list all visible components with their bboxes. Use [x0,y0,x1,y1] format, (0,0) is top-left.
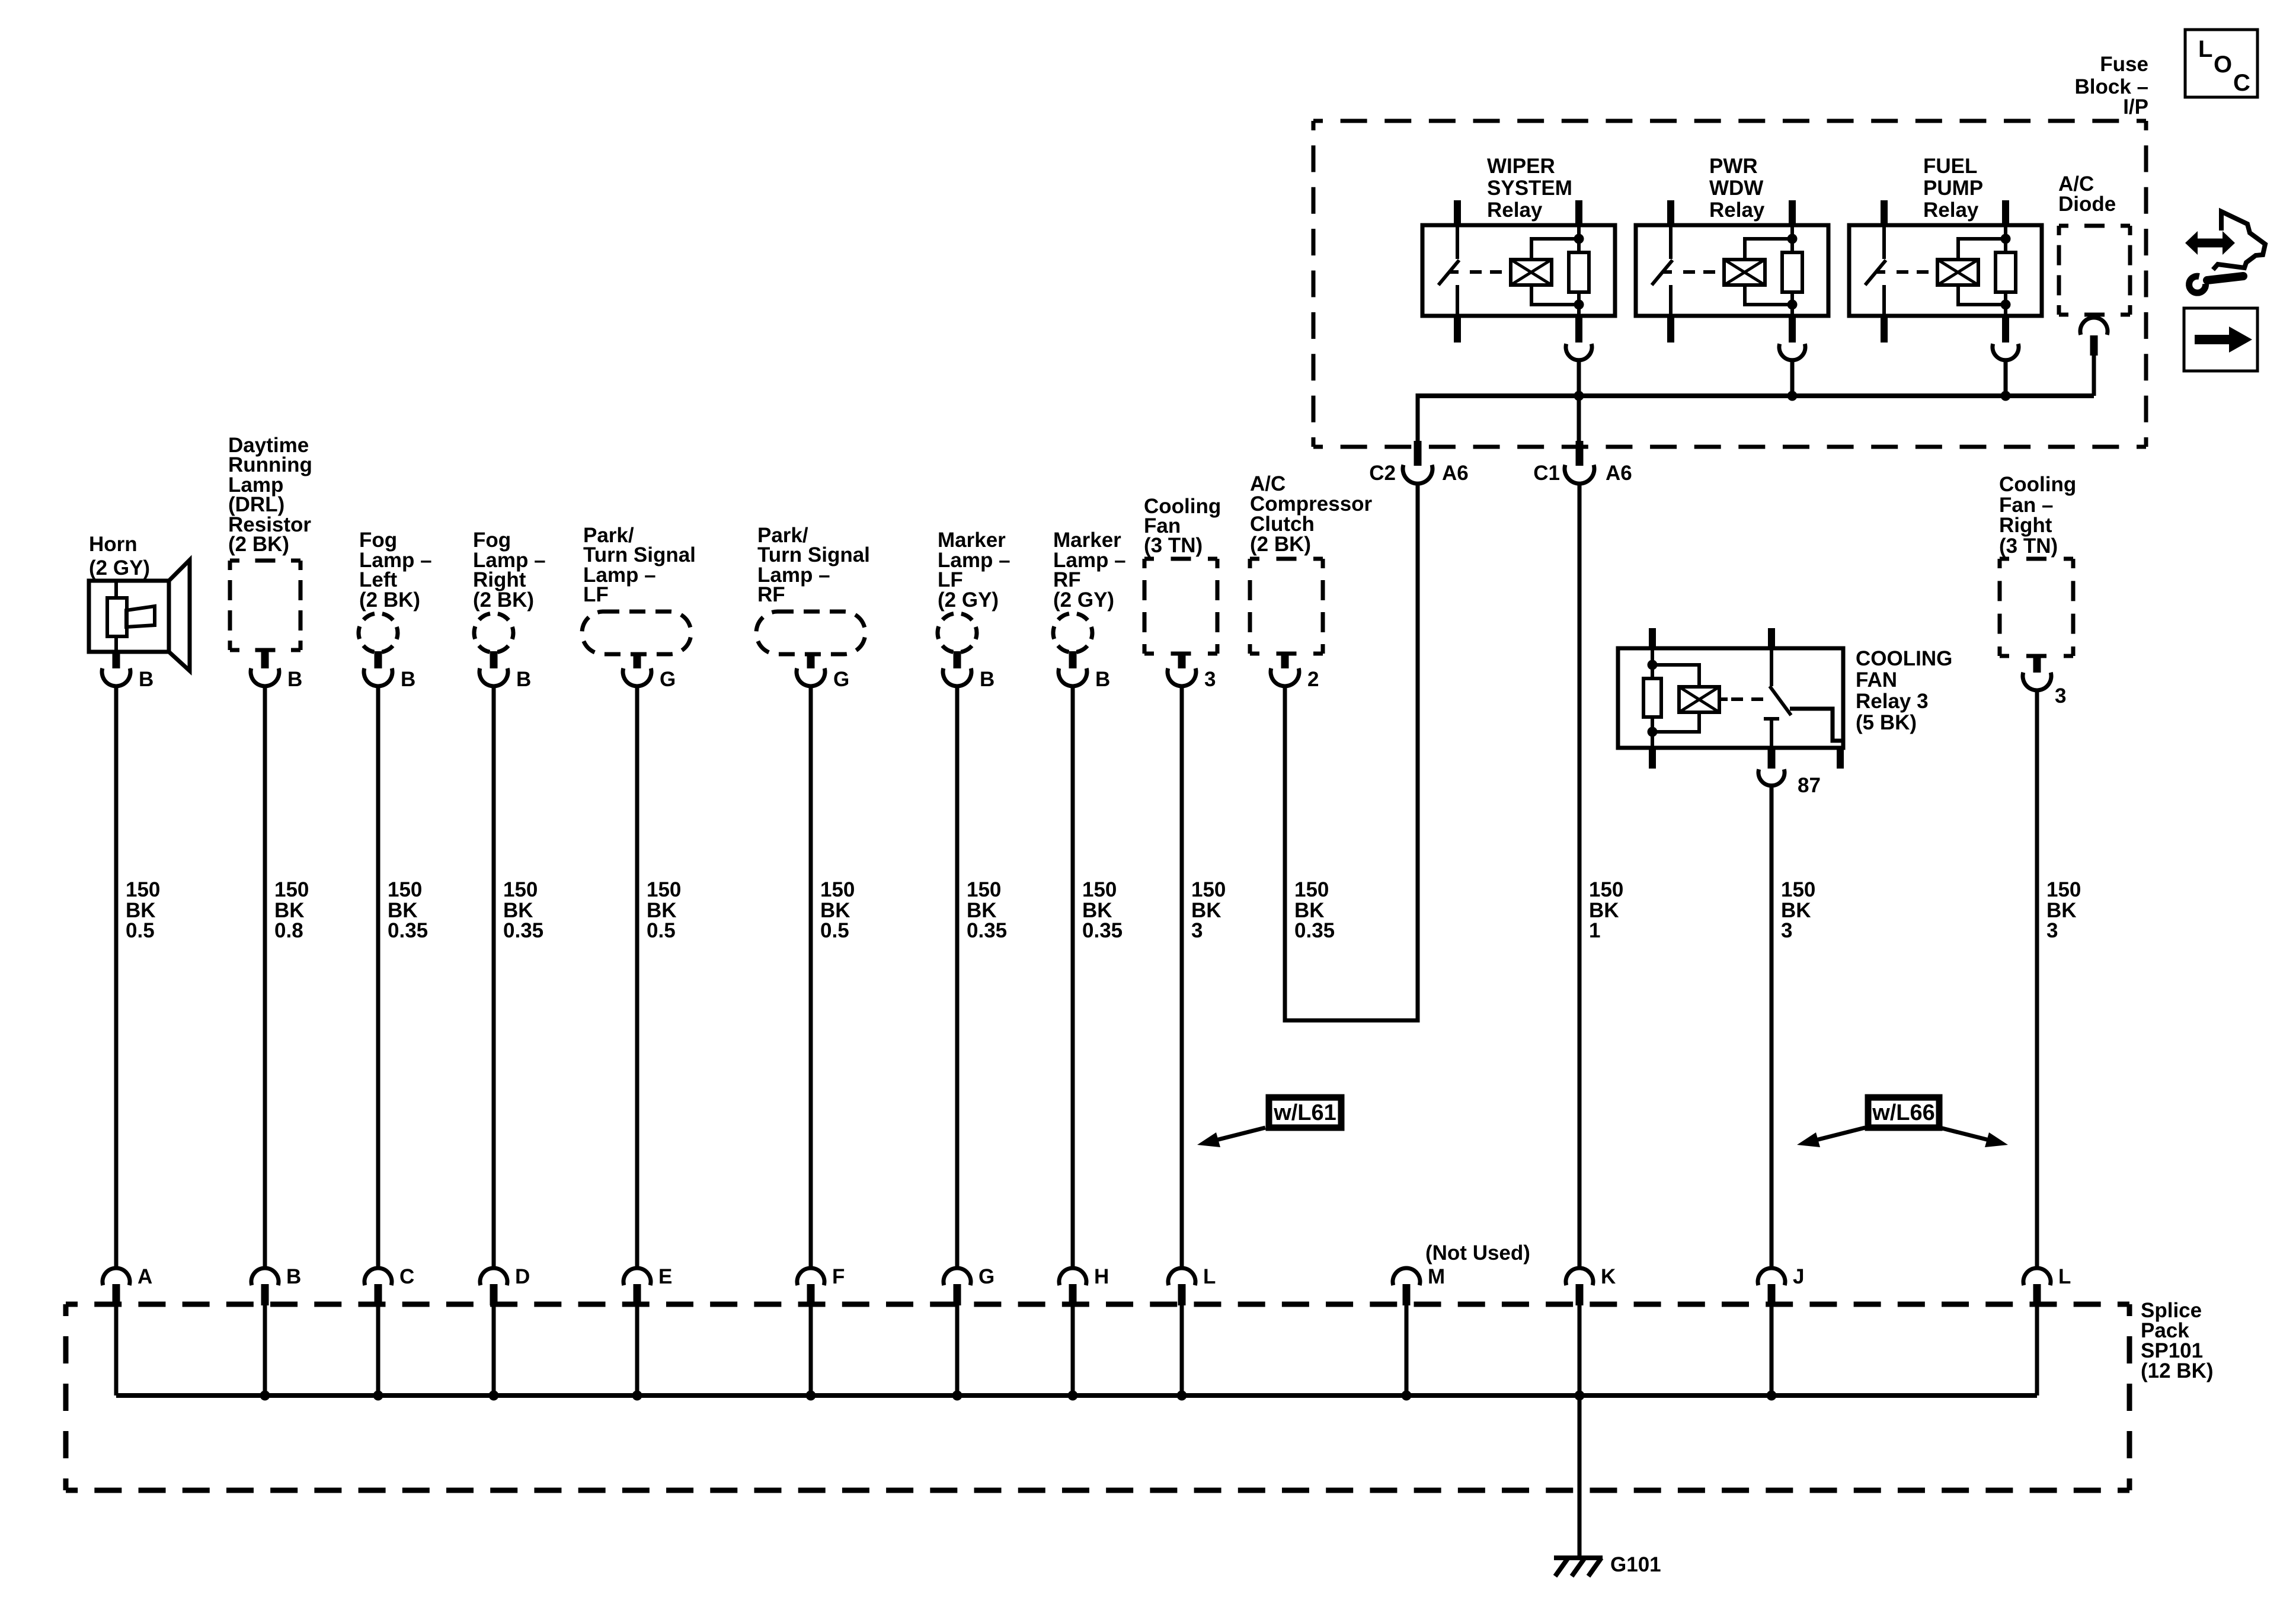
svg-text:Fuse: Fuse [2100,53,2148,76]
A/C diode dashed box [2059,224,2130,228]
A/C diode wire [2092,356,2096,396]
w/L66 left arrow [1809,1128,1865,1142]
svg-text:Cooling: Cooling [1999,473,2076,496]
relay WIPER SYSTEM coil [1511,260,1552,285]
relay PWR WDW pin 87 stub (bottom-right) [1789,316,1796,343]
cooling fan right connector 3 [2033,656,2041,673]
svg-text:SYSTEM: SYSTEM [1487,177,1572,200]
svg-text:RF: RF [757,583,785,606]
svg-text:E: E [658,1265,672,1288]
svg-text:L: L [2198,36,2212,62]
relay PWR WDW dashed actuator link [1683,270,1722,274]
svg-text:3: 3 [2046,919,2058,942]
svg-text:FAN: FAN [1856,668,1897,692]
svg-text:B: B [980,668,994,691]
svg-text:(3 TN): (3 TN) [1144,534,1203,557]
svg-text:3: 3 [1204,668,1216,691]
svg-text:G101: G101 [1610,1553,1661,1576]
splice pack wire at L [1180,1305,1184,1395]
svg-text:Horn: Horn [89,533,137,556]
relay FUEL PUMP dashed actuator link [1897,270,1936,274]
svg-text:B: B [401,668,415,691]
svg-text:WIPER: WIPER [1487,155,1555,178]
svg-text:(2 BK): (2 BK) [473,588,534,612]
svg-text:LF: LF [583,583,609,606]
svg-text:(Not Used): (Not Used) [1425,1241,1530,1265]
splice pack connector B [251,1268,279,1285]
LOC legend box [2185,30,2257,97]
relay WIPER SYSTEM pin 30 (top-left) [1454,200,1461,225]
relay WIPER SYSTEM resistor [1577,225,1581,252]
relay WIPER SYSTEM junction dots [1574,234,1584,244]
svg-text:0.5: 0.5 [820,919,849,942]
svg-text:0.35: 0.35 [1082,919,1123,942]
svg-text:C2: C2 [1369,462,1396,485]
svg-text:0.5: 0.5 [126,919,155,942]
relay FUEL PUMP pin 30 (top-left) [1881,200,1888,225]
cooling fan relay 87 wire to J [1770,786,1774,1268]
svg-text:150: 150 [967,878,1001,901]
svg-text:K: K [1601,1265,1616,1288]
splice pack junction dots [260,1391,270,1401]
splice pack wire at H [1071,1305,1075,1395]
svg-text:A: A [137,1265,152,1288]
svg-text:Relay: Relay [1923,199,1979,222]
splice pack connector C [364,1268,392,1285]
splice pack SP101 dashed outline [66,1302,2129,1307]
fog lamp left connector B [375,651,382,668]
relay WIPER SYSTEM box [1422,225,1615,316]
relay PWR WDW coil-resistor loop wires [1745,239,1792,260]
cooling fan dashed box [1144,557,1217,561]
svg-text:(2 BK): (2 BK) [228,533,289,556]
svg-text:0.35: 0.35 [967,919,1007,942]
ground wire to G101 [1578,1395,1582,1558]
wiper relay output wire to C1 [1577,359,1581,450]
relay FUEL PUMP pin 85 stub (bottom-left) [1881,316,1888,343]
svg-text:150: 150 [820,878,855,901]
splice pack wire at A [114,1305,119,1395]
cooling fan relay coil [1652,665,1699,687]
relay FUEL PUMP switch [1882,225,1886,259]
cooling fan connector 3 [1178,654,1186,668]
relay PWR WDW resistor [1790,225,1794,252]
svg-text:150: 150 [274,878,309,901]
park/turn signal lamp LF dashed stadium [582,612,691,654]
splice pack connector D [480,1268,507,1285]
svg-text:Diode: Diode [2058,193,2116,216]
cooling fan relay bottom pins [1649,748,1656,769]
marker lamp LF ground wire [955,686,960,1268]
svg-text:0.5: 0.5 [647,919,676,942]
marker lamp LF connector B [954,651,961,668]
svg-text:C: C [2233,70,2250,96]
cooling fan relay NO contact wire [1790,709,1842,741]
relay WIPER SYSTEM coil-resistor loop wires [1531,239,1579,260]
svg-text:B: B [287,668,302,691]
marker lamp RF connector B [1069,651,1077,668]
A/C compressor clutch dashed box [1250,557,1323,561]
DRL resistor dashed box [230,559,300,563]
marker lamp LF dashed circle [938,613,977,652]
splice pack wire at D [492,1305,496,1395]
splice pack bus wire [116,1393,2037,1398]
svg-text:M: M [1428,1265,1445,1288]
svg-text:G: G [833,668,849,691]
svg-text:3: 3 [1781,919,1792,942]
svg-text:Relay 3: Relay 3 [1856,690,1929,713]
cooling fan relay switch [1770,648,1773,686]
svg-text:87: 87 [1798,774,1821,797]
relay FUEL PUMP pin 86 (top-right) [2002,200,2009,225]
svg-text:(2 BK): (2 BK) [1250,533,1311,556]
splice pack wire at E [635,1305,639,1395]
svg-text:(2 GY): (2 GY) [89,556,150,580]
svg-text:C1: C1 [1533,462,1560,485]
relay WIPER SYSTEM output connector [1566,344,1592,360]
svg-text:(5 BK): (5 BK) [1856,711,1917,734]
fuse block internal bus wire [1418,393,2094,398]
bus junction dots [1574,391,1584,401]
splice pack wire at G [955,1305,960,1395]
svg-text:3: 3 [1191,919,1203,942]
park/turn RF connector G [807,654,815,668]
svg-text:A6: A6 [1442,462,1469,485]
horn symbol [89,581,169,652]
splice pack connector A [103,1268,130,1285]
ground symbol G101 [1554,1555,1603,1560]
A/C diode connector [2080,318,2108,335]
A/C clutch wire to C2 [1285,484,1418,1020]
svg-text:0.8: 0.8 [274,919,303,942]
svg-text:150: 150 [126,878,160,901]
svg-text:150: 150 [503,878,538,901]
svg-text:H: H [1094,1265,1109,1288]
fuel pump relay output wire [2004,359,2008,396]
connector C2/A6 [1414,441,1422,466]
svg-text:150: 150 [1082,878,1117,901]
relay FUEL PUMP coil [1937,260,1978,285]
svg-text:PUMP: PUMP [1923,177,1983,200]
svg-text:w/L61: w/L61 [1273,1100,1336,1125]
svg-text:1: 1 [1589,919,1600,942]
C1 ground wire [1578,484,1582,1268]
splice pack wire at M [1405,1305,1409,1395]
svg-text:Relay: Relay [1487,199,1543,222]
w/L66 right arrow [1940,1128,1996,1142]
relay PWR WDW coil [1724,260,1765,285]
cooling fan ground wire [1180,686,1184,1268]
svg-text:B: B [516,668,531,691]
marker lamp RF ground wire [1071,686,1075,1268]
relay WIPER SYSTEM pin 87 stub (bottom-right) [1575,316,1582,343]
park/turn LF connector G [634,654,641,668]
svg-text:C: C [399,1265,414,1288]
svg-text:J: J [1793,1265,1804,1288]
fog lamp right ground wire [492,686,496,1268]
relay FUEL PUMP box [1849,225,2042,316]
splice pack connector M [1393,1268,1420,1285]
svg-text:B: B [1095,668,1110,691]
svg-text:L: L [2058,1265,2071,1288]
relay FUEL PUMP junction dots [2001,234,2011,244]
splice pack wire at B [263,1305,267,1395]
svg-text:B: B [139,668,154,691]
svg-text:150: 150 [2046,878,2081,901]
svg-text:w/L66: w/L66 [1872,1100,1935,1125]
svg-text:(3 TN): (3 TN) [1999,534,2058,558]
relay PWR WDW output connector [1779,344,1805,360]
diagnostic icon (arrow, connector head, wrench) [2196,239,2224,248]
w/L66 callout box [1868,1097,1939,1128]
relay PWR WDW switch [1669,225,1673,259]
splice pack wire at L [2035,1305,2039,1395]
svg-text:A6: A6 [1606,462,1632,485]
svg-text:F: F [832,1265,845,1288]
next-page arrow box [2184,308,2257,371]
splice pack connector H [1059,1268,1086,1285]
A/C clutch connector 2 [1281,654,1289,668]
connector C1/A6 [1576,441,1584,466]
park/turn RF ground wire [809,686,813,1268]
svg-text:(12 BK): (12 BK) [2141,1359,2214,1382]
svg-text:B: B [286,1265,301,1288]
splice pack connector K [1566,1268,1593,1285]
svg-text:150: 150 [1191,878,1226,901]
horn ground wire [114,686,119,1268]
svg-text:150: 150 [1294,878,1329,901]
svg-text:PWR: PWR [1709,155,1758,178]
relay PWR WDW box [1636,225,1828,316]
splice pack wire at J [1770,1305,1774,1395]
splice pack connector E [623,1268,651,1285]
cooling fan relay top pins [1649,628,1656,648]
svg-text:L: L [1203,1265,1216,1288]
relay FUEL PUMP coil-resistor loop wires [1958,239,2006,260]
fog lamp right dashed circle [474,613,513,652]
splice pack connector J [1758,1268,1785,1285]
svg-text:0.35: 0.35 [1294,919,1335,942]
w/L61 callout box [1269,1097,1341,1128]
cooling fan right dashed box [2000,557,2073,561]
relay PWR WDW junction dots [1787,234,1798,244]
svg-text:G: G [660,668,676,691]
fog lamp right connector B [490,651,498,668]
svg-text:(2 BK): (2 BK) [359,588,420,612]
relay WIPER SYSTEM pin 85 stub (bottom-left) [1454,316,1461,343]
cooling fan right ground wire [2035,690,2039,1268]
svg-text:WDW: WDW [1709,177,1763,200]
svg-text:I/P: I/P [2123,95,2148,119]
splice pack connector L [1168,1268,1195,1285]
fuse block I/P dashed outline [1313,119,2146,123]
w/L61 arrow [1209,1128,1265,1142]
cooling fan relay dashed actuator link [1731,697,1763,701]
svg-text:D: D [515,1265,530,1288]
svg-text:(2 GY): (2 GY) [1053,588,1114,612]
svg-text:150: 150 [1589,878,1623,901]
svg-text:3: 3 [2055,684,2066,708]
horn connector B [113,652,120,668]
svg-text:150: 150 [647,878,681,901]
splice pack connector F [797,1268,824,1285]
svg-text:Relay: Relay [1709,199,1765,222]
svg-text:150: 150 [388,878,422,901]
park/turn LF ground wire [635,686,639,1268]
marker lamp RF dashed circle [1053,613,1092,652]
relay FUEL PUMP output connector [1993,344,2019,360]
relay FUEL PUMP pin 87 stub (bottom-right) [2002,316,2009,343]
splice pack wire at F [809,1305,813,1395]
COOLING FAN Relay 3 box [1618,648,1843,748]
splice pack wire at C [376,1305,380,1395]
park/turn signal lamp RF dashed stadium [756,612,865,654]
splice pack connector L [2023,1268,2051,1285]
svg-text:COOLING: COOLING [1856,647,1952,670]
relay WIPER SYSTEM dashed actuator link [1470,270,1509,274]
svg-text:2: 2 [1307,668,1319,691]
svg-text:FUEL: FUEL [1923,155,1977,178]
DRL ground wire [263,686,267,1268]
svg-text:0.35: 0.35 [388,919,428,942]
svg-text:Right: Right [1999,514,2052,537]
relay WIPER SYSTEM pin 86 (top-right) [1575,200,1582,225]
splice pack connector G [944,1268,971,1285]
pwr wdw relay output wire [1790,359,1795,396]
svg-text:O: O [2214,52,2232,78]
relay PWR WDW pin 86 (top-right) [1789,200,1796,225]
fog lamp left dashed circle [359,613,398,652]
DRL connector B [261,650,269,668]
splice pack wire at K [1578,1305,1582,1395]
relay WIPER SYSTEM switch [1456,225,1459,259]
svg-text:0.35: 0.35 [503,919,543,942]
cooling fan relay pin 87 connector [1758,769,1785,786]
svg-text:150: 150 [1781,878,1815,901]
relay FUEL PUMP resistor [2004,225,2007,252]
relay PWR WDW pin 30 (top-left) [1667,200,1674,225]
cooling fan relay resistor branch [1651,648,1654,678]
fog lamp left ground wire [376,686,380,1268]
svg-text:G: G [978,1265,994,1288]
svg-text:(2 GY): (2 GY) [938,588,999,612]
relay PWR WDW pin 85 stub (bottom-left) [1667,316,1674,343]
